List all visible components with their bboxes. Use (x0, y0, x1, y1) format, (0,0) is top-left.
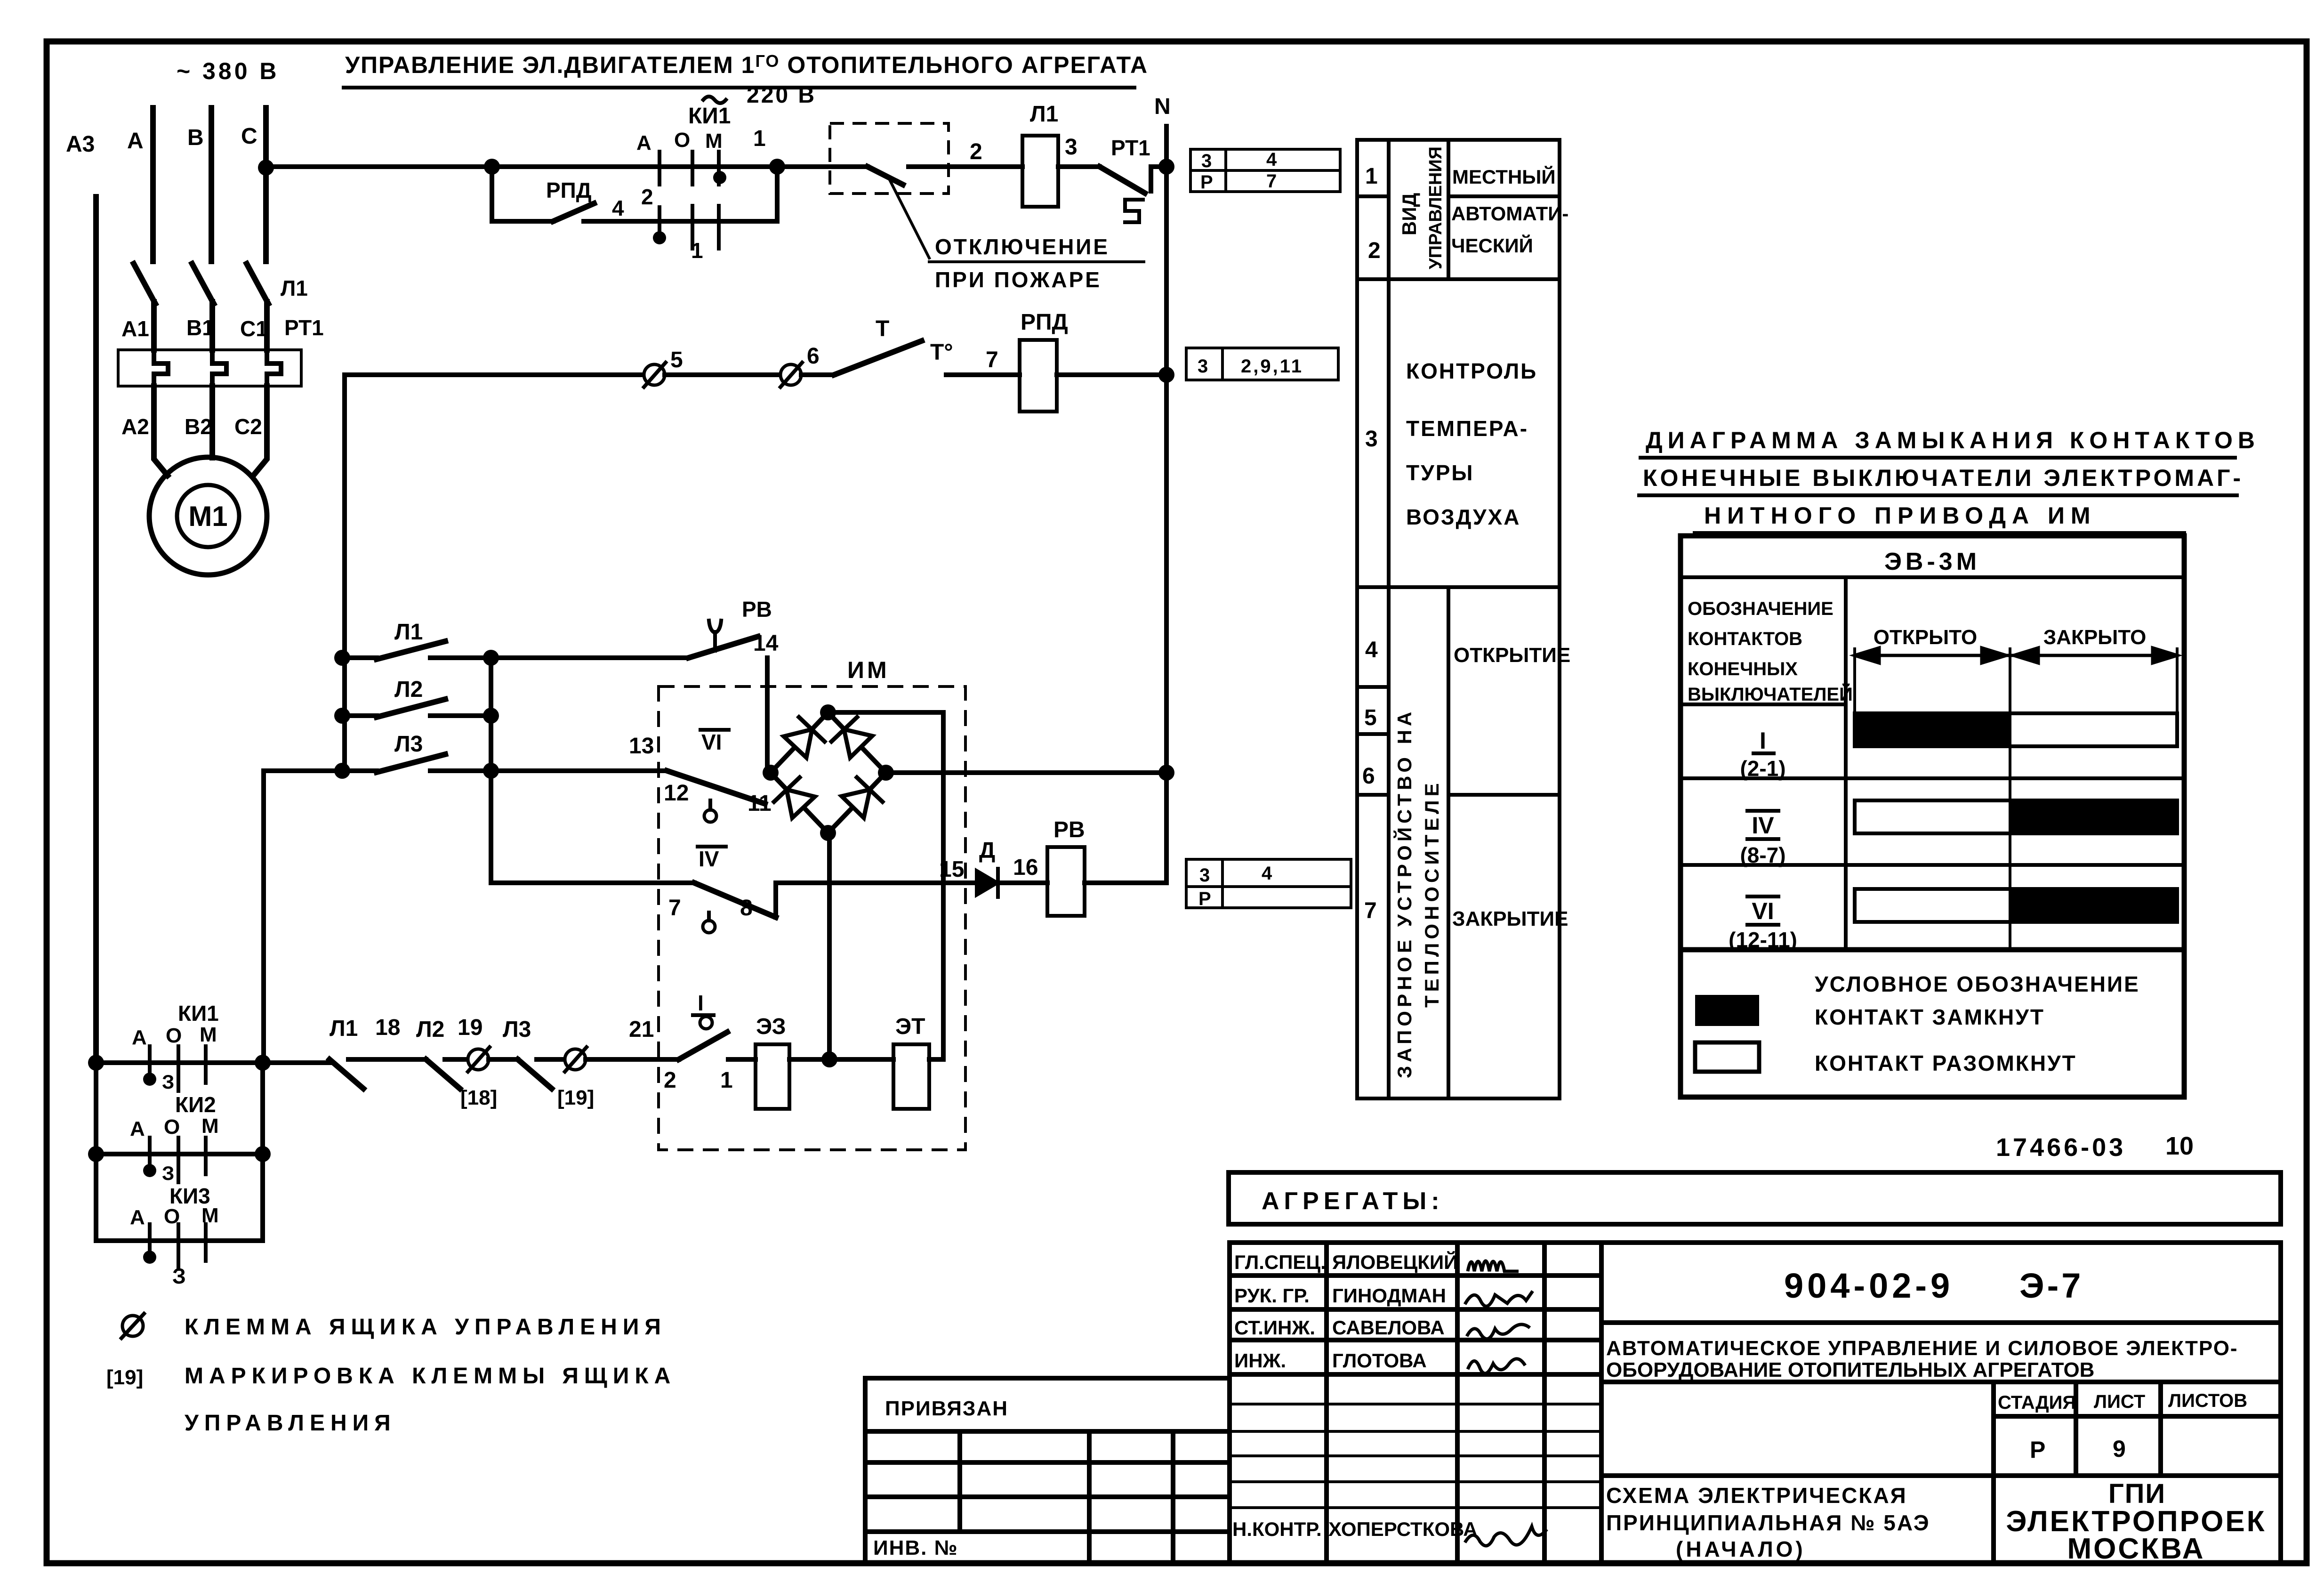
svg-text:А: А (130, 1206, 145, 1229)
svg-text:ДИАГРАММА ЗАМЫКАНИЯ КОНТАКТО: ДИАГРАММА ЗАМЫКАНИЯ КОНТАКТОВ (1646, 427, 2260, 453)
svg-text:ПРИ ПОЖАРЕ: ПРИ ПОЖАРЕ (935, 267, 1102, 292)
svg-text:13: 13 (629, 734, 654, 759)
svg-text:МОСКВА: МОСКВА (2067, 1533, 2205, 1565)
svg-text:АВТОМАТИ-: АВТОМАТИ- (1451, 202, 1568, 225)
svg-text:ЧЕСКИЙ: ЧЕСКИЙ (1451, 234, 1533, 257)
svg-text:ОТКЛЮЧЕНИЕ: ОТКЛЮЧЕНИЕ (935, 234, 1110, 259)
svg-text:3: 3 (1365, 427, 1378, 452)
svg-text:4: 4 (1262, 863, 1272, 884)
svg-text:ГЛ.СПЕЦ.: ГЛ.СПЕЦ. (1234, 1251, 1326, 1273)
svg-text:ЭТ: ЭТ (895, 1014, 925, 1039)
svg-text:16: 16 (1013, 855, 1038, 880)
svg-text:Л3: Л3 (503, 1017, 531, 1042)
svg-text:Т: Т (876, 316, 889, 341)
svg-text:Л1: Л1 (1030, 102, 1058, 127)
svg-text:ИМ: ИМ (847, 657, 890, 683)
svg-text:I: I (1760, 727, 1766, 754)
svg-text:КЛЕММА ЯЩИКА УПРАВЛЕНИЯ: КЛЕММА ЯЩИКА УПРАВЛЕНИЯ (185, 1315, 667, 1340)
svg-text:ОБОРУДОВАНИЕ ОТОПИТЕЛЬНЫХ АГРЕ: ОБОРУДОВАНИЕ ОТОПИТЕЛЬНЫХ АГРЕГАТОВ (1606, 1358, 2094, 1381)
svg-text:Э-7: Э-7 (2019, 1266, 2083, 1305)
svg-text:4: 4 (612, 196, 624, 220)
svg-text:2: 2 (970, 139, 982, 164)
svg-text:ЭВ-3М: ЭВ-3М (1884, 548, 1980, 575)
svg-text:6: 6 (1362, 764, 1375, 789)
svg-text:~ 380 В: ~ 380 В (177, 58, 280, 84)
svg-text:М: М (201, 1115, 219, 1138)
svg-text:А: А (132, 1026, 147, 1049)
svg-text:УПРАВЛЕНИЯ: УПРАВЛЕНИЯ (1426, 146, 1446, 269)
svg-text:3: 3 (1199, 865, 1210, 886)
svg-text:КОНТРОЛЬ: КОНТРОЛЬ (1406, 359, 1537, 383)
svg-text:220 В: 220 В (747, 83, 816, 108)
svg-text:15: 15 (939, 857, 964, 882)
svg-text:ТЕПЛОНОСИТЕЛЕ: ТЕПЛОНОСИТЕЛЕ (1421, 779, 1443, 1008)
svg-text:(2-1): (2-1) (1740, 756, 1785, 781)
svg-text:В1: В1 (186, 315, 214, 340)
svg-text:М: М (201, 1204, 219, 1227)
svg-text:18: 18 (375, 1015, 400, 1040)
svg-text:А: А (636, 131, 651, 154)
svg-text:О: О (164, 1115, 180, 1139)
svg-text:7: 7 (668, 896, 681, 921)
svg-text:ЗАПОРНОЕ УСТРОЙСТВО НА: ЗАПОРНОЕ УСТРОЙСТВО НА (1393, 708, 1415, 1078)
svg-text:ГИНОДМАН: ГИНОДМАН (1332, 1284, 1446, 1307)
svg-text:[19]: [19] (557, 1086, 594, 1109)
svg-text:РТ1: РТ1 (1111, 136, 1150, 160)
svg-text:5: 5 (670, 347, 683, 372)
svg-text:ВЫКЛЮЧАТЕЛЕЙ: ВЫКЛЮЧАТЕЛЕЙ (1688, 683, 1853, 705)
svg-text:7: 7 (1266, 171, 1277, 192)
svg-text:ЗАКРЫТИЕ: ЗАКРЫТИЕ (1452, 907, 1568, 930)
svg-text:СТ.ИНЖ.: СТ.ИНЖ. (1234, 1316, 1315, 1339)
svg-text:О: О (166, 1024, 182, 1047)
svg-text:Р: Р (1198, 888, 1211, 909)
svg-text:УСЛОВНОЕ ОБОЗНАЧЕНИЕ: УСЛОВНОЕ ОБОЗНАЧЕНИЕ (1815, 972, 2140, 996)
svg-text:М: М (200, 1023, 217, 1046)
svg-text:1: 1 (720, 1068, 733, 1093)
svg-text:(НАЧАЛО): (НАЧАЛО) (1676, 1537, 1806, 1561)
svg-text:ХОПЕРСТКОВА: ХОПЕРСТКОВА (1328, 1518, 1478, 1540)
svg-text:О: О (674, 129, 690, 152)
svg-text:ЯЛОВЕЦКИЙ: ЯЛОВЕЦКИЙ (1332, 1251, 1458, 1273)
svg-text:РТ1: РТ1 (284, 315, 324, 340)
svg-text:САВЕЛОВА: САВЕЛОВА (1332, 1316, 1445, 1339)
svg-text:12: 12 (664, 781, 689, 806)
svg-text:КОНТАКТ РАЗОМКНУТ: КОНТАКТ РАЗОМКНУТ (1815, 1051, 2077, 1075)
svg-text:ГЛОТОВА: ГЛОТОВА (1332, 1349, 1427, 1372)
svg-text:Р: Р (1200, 172, 1213, 193)
svg-text:ТУРЫ: ТУРЫ (1406, 460, 1474, 485)
svg-text:2: 2 (664, 1068, 676, 1093)
svg-text:РПД: РПД (1021, 310, 1068, 335)
svg-text:9: 9 (2113, 1436, 2126, 1462)
svg-text:3: 3 (1201, 151, 1212, 171)
svg-text:2,9,11: 2,9,11 (1241, 356, 1303, 377)
svg-text:ОТКРЫТИЕ: ОТКРЫТИЕ (1454, 644, 1570, 667)
svg-text:IV: IV (699, 847, 719, 871)
svg-text:3: 3 (1198, 356, 1208, 377)
svg-text:4: 4 (1266, 149, 1277, 170)
svg-text:В: В (187, 125, 204, 150)
svg-text:7: 7 (986, 347, 998, 372)
svg-text:2: 2 (1368, 238, 1381, 263)
svg-text:(8-7): (8-7) (1740, 843, 1785, 867)
svg-text:А: А (130, 1117, 145, 1140)
svg-text:З: З (162, 1162, 174, 1184)
svg-text:НИТНОГО ПРИВОДА ИМ: НИТНОГО ПРИВОДА ИМ (1704, 502, 2097, 529)
svg-text:ОТКРЫТО: ОТКРЫТО (1874, 626, 1977, 649)
svg-text:ПРИНЦИПИАЛЬНАЯ № 5АЭ: ПРИНЦИПИАЛЬНАЯ № 5АЭ (1606, 1510, 1930, 1535)
svg-text:ЗАКРЫТО: ЗАКРЫТО (2043, 626, 2147, 649)
svg-text:VI: VI (1752, 898, 1774, 924)
svg-text:5: 5 (1364, 705, 1377, 730)
svg-text:Л2: Л2 (394, 677, 423, 702)
svg-text:З: З (162, 1071, 174, 1093)
svg-text:N: N (1154, 94, 1171, 119)
svg-text:ВИД: ВИД (1398, 193, 1420, 235)
svg-text:КИ2: КИ2 (175, 1092, 216, 1117)
svg-text:УПРАВЛЕНИЕ ЭЛ.ДВИГАТЕЛЕМ 1ГО О: УПРАВЛЕНИЕ ЭЛ.ДВИГАТЕЛЕМ 1ГО ОТОПИТЕЛЬНО… (345, 51, 1148, 78)
svg-text:СТАДИЯ: СТАДИЯ (1998, 1392, 2076, 1413)
svg-text:КИ1: КИ1 (178, 1001, 219, 1026)
svg-text:IV: IV (1752, 812, 1774, 839)
svg-text:1: 1 (691, 238, 703, 263)
svg-text:А: А (127, 129, 144, 153)
svg-text:РПД: РПД (546, 178, 592, 202)
svg-text:ИНВ. №: ИНВ. № (873, 1536, 958, 1559)
svg-text:РВ: РВ (1053, 817, 1085, 842)
svg-text:4: 4 (1365, 638, 1378, 662)
svg-text:О: О (164, 1205, 180, 1228)
svg-text:В2: В2 (185, 414, 212, 439)
svg-text:А1: А1 (121, 316, 149, 341)
svg-text:3: 3 (1065, 135, 1078, 160)
svg-text:1: 1 (1365, 164, 1378, 189)
svg-text:А2: А2 (121, 414, 149, 439)
svg-text:КИ1: КИ1 (688, 104, 731, 129)
svg-text:КОНТАКТОВ: КОНТАКТОВ (1688, 629, 1802, 649)
svg-text:РВ: РВ (742, 597, 772, 622)
svg-text:Л1: Л1 (330, 1016, 358, 1041)
svg-text:ТЕМПЕРА-: ТЕМПЕРА- (1406, 416, 1528, 441)
svg-text:7: 7 (1364, 898, 1377, 923)
svg-text:МАРКИРОВКА КЛЕММЫ ЯЩИКА: МАРКИРОВКА КЛЕММЫ ЯЩИКА (185, 1364, 676, 1389)
svg-text:З: З (172, 1264, 186, 1288)
svg-text:ПРИВЯЗАН: ПРИВЯЗАН (885, 1397, 1008, 1420)
svg-text:[18]: [18] (460, 1086, 497, 1109)
svg-text:ГПИ: ГПИ (2108, 1478, 2166, 1509)
svg-text:Д: Д (979, 838, 995, 863)
svg-text:Р: Р (2030, 1437, 2045, 1463)
svg-text:1: 1 (753, 126, 766, 151)
svg-text:УПРАВЛЕНИЯ: УПРАВЛЕНИЯ (185, 1411, 396, 1436)
svg-text:Н.КОНТР.: Н.КОНТР. (1232, 1518, 1322, 1540)
svg-text:21: 21 (629, 1017, 654, 1042)
svg-text:КОНЕЧНЫЕ ВЫКЛЮЧАТЕЛИ ЭЛЕКТРОМА: КОНЕЧНЫЕ ВЫКЛЮЧАТЕЛИ ЭЛЕКТРОМАГ- (1643, 465, 2244, 491)
svg-text:С: С (241, 124, 257, 149)
svg-text:М: М (705, 129, 723, 153)
svg-text:6: 6 (807, 344, 820, 369)
svg-text:ЛИСТОВ: ЛИСТОВ (2168, 1390, 2247, 1411)
svg-text:Т°: Т° (930, 340, 953, 365)
svg-text:17466-03: 17466-03 (1996, 1133, 2126, 1162)
svg-text:С1: С1 (240, 316, 268, 341)
svg-text:ВОЗДУХА: ВОЗДУХА (1406, 505, 1521, 529)
svg-text:ОБОЗНАЧЕНИЕ: ОБОЗНАЧЕНИЕ (1688, 598, 1833, 619)
svg-text:I: I (698, 991, 704, 1015)
svg-text:СХЕМА ЭЛЕКТРИЧЕСКАЯ: СХЕМА ЭЛЕКТРИЧЕСКАЯ (1606, 1483, 1907, 1508)
svg-text:АВТОМАТИЧЕСКОЕ УПРАВЛЕНИЕ И СИ: АВТОМАТИЧЕСКОЕ УПРАВЛЕНИЕ И СИЛОВОЕ ЭЛЕК… (1606, 1337, 2238, 1360)
svg-text:2: 2 (641, 185, 653, 209)
svg-text:(12-11): (12-11) (1729, 928, 1797, 952)
svg-text:А3: А3 (66, 132, 95, 157)
svg-text:[19]: [19] (106, 1366, 143, 1389)
svg-text:904-02-9: 904-02-9 (1784, 1266, 1954, 1305)
svg-text:14: 14 (753, 631, 779, 656)
svg-text:ЛИСТ: ЛИСТ (2094, 1391, 2145, 1412)
svg-text:КОНТАКТ ЗАМКНУТ: КОНТАКТ ЗАМКНУТ (1815, 1005, 2045, 1029)
svg-text:М1: М1 (188, 501, 227, 532)
svg-text:ЭЗ: ЭЗ (756, 1014, 786, 1039)
svg-text:ИНЖ.: ИНЖ. (1234, 1349, 1286, 1372)
svg-text:АГРЕГАТЫ:: АГРЕГАТЫ: (1262, 1187, 1444, 1215)
svg-text:VI: VI (701, 730, 722, 754)
svg-text:РУК. ГР.: РУК. ГР. (1234, 1284, 1310, 1307)
svg-text:Л3: Л3 (394, 732, 423, 757)
svg-text:Л2: Л2 (416, 1017, 444, 1042)
svg-text:Л1: Л1 (281, 276, 308, 300)
svg-text:МЕСТНЫЙ: МЕСТНЫЙ (1452, 165, 1556, 188)
svg-text:С2: С2 (234, 414, 262, 439)
svg-text:19: 19 (458, 1015, 482, 1040)
svg-text:КОНЕЧНЫХ: КОНЕЧНЫХ (1688, 659, 1798, 679)
svg-text:Л1: Л1 (394, 620, 423, 645)
svg-text:10: 10 (2165, 1132, 2194, 1160)
